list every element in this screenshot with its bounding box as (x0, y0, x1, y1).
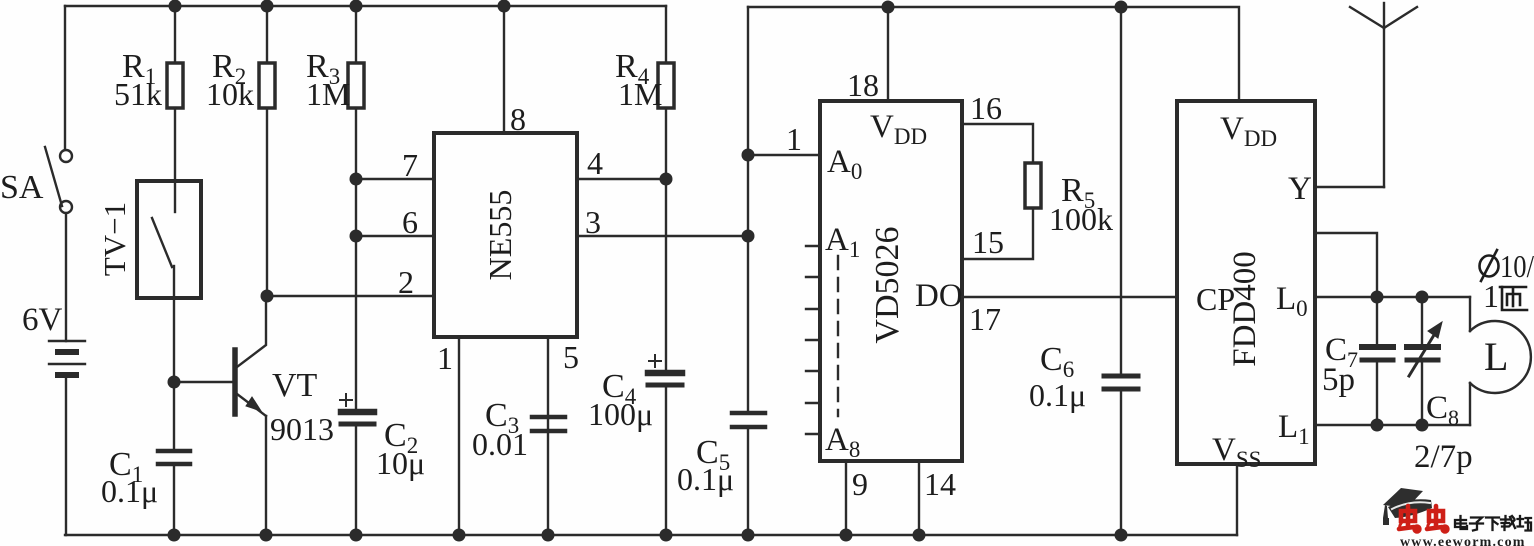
svg-text:C8: C8 (1426, 390, 1459, 430)
junction dot ground C5 (742, 529, 755, 542)
vibration switch TV-1 (137, 181, 201, 298)
svg-text:VD5026: VD5026 (869, 226, 906, 343)
svg-text:L: L (1484, 334, 1508, 379)
wire C1 to ground rail (173, 464, 175, 535)
junction dot pin7 R3 (350, 173, 363, 186)
label plus C2 (340, 394, 352, 406)
svg-text:SA: SA (0, 169, 44, 206)
wire bottom ground rail (65, 534, 1237, 536)
pin 4 wire NE555 (577, 178, 666, 180)
svg-text:DO: DO (915, 278, 963, 314)
svg-text:1: 1 (437, 340, 453, 376)
wire C5 to ground rail (747, 427, 749, 535)
wire collector node to NE555 pin 2 (267, 295, 434, 297)
junction dot ground C2 (350, 529, 363, 542)
junction dot ground pin9 (840, 529, 853, 542)
svg-text:2/7p: 2/7p (1414, 439, 1473, 475)
svg-text:100k: 100k (1049, 201, 1113, 237)
wire C6 vertical (1120, 7, 1122, 373)
junction dot rail1 pin8 (498, 0, 511, 13)
svg-text:5p: 5p (1322, 362, 1355, 398)
capacitor C3 (532, 417, 565, 431)
junction dot ground pin5 (542, 529, 555, 542)
wire L0 to coil (1315, 296, 1470, 298)
junction dot TV-1 base node (168, 376, 181, 389)
pin 7 wire NE555 (356, 178, 434, 180)
logo red bug character 2 (1427, 506, 1447, 531)
svg-text:10k: 10k (206, 76, 254, 112)
wire from switch SA to battery top (65, 213, 67, 341)
junction dot ground C1 (168, 529, 181, 542)
junction dot L1 C8 (1416, 419, 1429, 432)
svg-text:8: 8 (510, 101, 526, 137)
pin 3 wire NE555 (577, 235, 748, 237)
junction dot pin4 R4 (660, 173, 673, 186)
svg-text:10μ: 10μ (376, 445, 425, 481)
capacitor C1 (158, 451, 190, 464)
pin 18 wire VD5026 (887, 7, 889, 101)
svg-text:4: 4 (587, 145, 603, 181)
pin 17 wire DO to CP (962, 296, 1177, 298)
logo text dianzi xiazaizhan (1455, 516, 1531, 531)
capacitor C5 (732, 413, 765, 427)
wire C2 to ground rail (355, 424, 357, 535)
svg-text:2: 2 (398, 264, 414, 300)
svg-text:100μ: 100μ (588, 396, 653, 432)
svg-text:17: 17 (969, 301, 1001, 337)
wire node vertical from rail2 through A0 and pin3 to ground (747, 7, 749, 410)
capacitor C7 (1362, 297, 1393, 425)
junction dot ground pin1 (453, 529, 466, 542)
inductor coil L (1470, 297, 1531, 425)
svg-text:51k: 51k (114, 76, 162, 112)
wire VSS to ground rail (1236, 464, 1238, 535)
wire left edge from rail to switch SA (64, 6, 66, 149)
svg-text:CP: CP (1196, 281, 1235, 317)
junction dot rail1 R3 (350, 0, 363, 13)
resistor R3 (348, 6, 364, 409)
svg-text:18: 18 (847, 67, 879, 103)
junction dot ground C4 (660, 529, 673, 542)
junction dot A0 node (742, 149, 755, 162)
wire FDD400 upper branch to L0 node (1315, 233, 1377, 297)
label plus C4 (649, 355, 661, 367)
wire TV-1 to C1 (173, 298, 175, 448)
logo cap highlight (1392, 502, 1430, 509)
pin 1 wire NE555 (458, 337, 460, 535)
junction dot pin6 R3 (350, 230, 363, 243)
svg-text:Y: Y (1288, 171, 1312, 207)
svg-text:1M: 1M (618, 76, 662, 112)
pin 14 wire VD5026 (918, 461, 920, 535)
capacitor C4 electrolytic (648, 373, 682, 385)
svg-text:1: 1 (786, 121, 802, 157)
junction dot ground C6 (1115, 529, 1128, 542)
svg-text:10/: 10/ (1500, 248, 1534, 284)
logo graduation cap (1383, 488, 1432, 525)
label 1 turn (1 zha) (1483, 278, 1527, 314)
svg-text:6V: 6V (22, 302, 63, 338)
junction dot collector pin2 node (261, 290, 274, 303)
junction dot L1 C7 (1371, 419, 1384, 432)
wire top supply rail right segment (748, 7, 1239, 101)
svg-text:16: 16 (970, 90, 1002, 126)
junction dot L0 C7 (1371, 291, 1384, 304)
encoder IC VD5026 (820, 101, 962, 461)
resistor R1 (167, 6, 183, 181)
transmitter IC FDD400 (1177, 101, 1315, 464)
svg-text:www.eeworm.com: www.eeworm.com (1400, 535, 1526, 546)
wire L1 to coil bottom (1315, 424, 1470, 426)
wire C6 to ground rail (1120, 389, 1122, 535)
svg-text:14: 14 (924, 466, 956, 502)
switch SA (45, 147, 72, 213)
svg-text:NE555: NE555 (482, 190, 518, 281)
wire C4 to ground rail (665, 385, 667, 535)
pin 16 wire to R5 (962, 124, 1033, 163)
svg-text:1: 1 (1483, 278, 1499, 314)
transistor VT (235, 296, 266, 535)
wire base of VT (174, 381, 233, 383)
svg-text:0.1μ: 0.1μ (101, 473, 158, 509)
svg-text:9: 9 (852, 466, 868, 502)
logo red bug character 1 (1399, 506, 1419, 531)
svg-text:15: 15 (972, 224, 1004, 260)
svg-text:5: 5 (563, 339, 579, 375)
svg-text:TV−1: TV−1 (97, 202, 132, 276)
svg-text:3: 3 (585, 204, 601, 240)
svg-text:6: 6 (402, 204, 418, 240)
dashed line A1 to A8 (837, 256, 839, 416)
junction dot ground emitter (260, 529, 273, 542)
resistor R4 (658, 6, 674, 371)
junction dot ground pin14 (913, 529, 926, 542)
capacitor C2 electrolytic (341, 412, 374, 424)
svg-text:C6: C6 (1040, 341, 1074, 382)
svg-text:0.1μ: 0.1μ (677, 461, 734, 497)
pin 8 wire NE555 (503, 6, 505, 133)
pin stubs A1-A8 left side (806, 246, 820, 434)
junction dot L0 C8 (1416, 291, 1429, 304)
svg-text:1M: 1M (306, 76, 350, 112)
wire battery bottom to ground rail (65, 375, 67, 535)
svg-text:0.1μ: 0.1μ (1029, 377, 1086, 413)
wire top supply rail left segment (65, 5, 666, 7)
resistor R2 (259, 6, 275, 296)
pin 15 wire from R5 (962, 208, 1033, 259)
battery 6V (49, 341, 85, 375)
svg-text:0.01: 0.01 (472, 426, 528, 462)
wire Y to antenna (1315, 186, 1384, 188)
svg-text:9013: 9013 (270, 411, 334, 447)
svg-text:VT: VT (272, 367, 318, 404)
capacitor C6 (1104, 376, 1138, 389)
antenna (1350, 3, 1417, 187)
pin 9 wire VD5026 (845, 461, 847, 535)
junction dot pin3 node (742, 230, 755, 243)
op-amp timer IC NE555 (434, 133, 577, 337)
wire node A0 to VD5026 pin 1 (748, 154, 820, 156)
junction dot rail2 C6 (1115, 1, 1128, 14)
pin 6 wire NE555 (356, 235, 434, 237)
svg-text:7: 7 (402, 147, 418, 183)
junction dot rail1 R2 (261, 0, 274, 13)
pin 5 wire NE555 (547, 337, 549, 535)
resistor R5 (1025, 163, 1041, 208)
label phi10 1 turn (1480, 250, 1499, 281)
variable capacitor C8 (1407, 297, 1442, 425)
junction dot rail1 R1 (169, 0, 182, 13)
junction dot rail2 pin18 (882, 1, 895, 14)
